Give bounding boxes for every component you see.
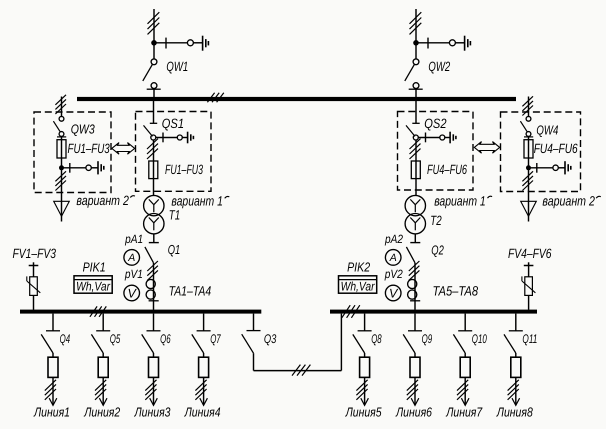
svg-text:PIK1: PIK1 [83,259,106,274]
footnote mark [596,196,601,198]
wire down [52,377,54,405]
svg-text:QW2: QW2 [428,59,450,74]
svg-text:TA5–TA8: TA5–TA8 [433,284,479,299]
wire down to transformer [415,140,417,196]
line continuation hatches [457,380,468,400]
transformer T1 secondary winding [144,214,164,234]
wire [414,353,416,357]
meter box header line [339,279,377,281]
wire to earthing switch [64,167,86,169]
feeder drop Q5 [102,314,104,331]
ammeter pA2 [385,250,401,266]
ground symbol [465,36,471,51]
svg-text:Q6: Q6 [160,332,171,346]
disconnector QW2 blade [405,65,415,81]
wire to bus [414,263,416,310]
wire [445,137,450,139]
arrester top tick [29,265,39,267]
line continuation hatches [147,261,158,280]
wire down [364,377,366,405]
wire down [61,168,63,201]
switch Q1 blade [145,247,154,263]
load switch QS2 blade [406,125,415,136]
line continuation hatches [522,171,533,190]
wire [91,167,98,169]
tie wire break marks [292,365,310,376]
line continuation hatches [147,139,158,159]
svg-text:Q4: Q4 [60,332,71,346]
junction node [526,165,531,170]
wire through arrow [61,201,63,221]
svg-text:QW4: QW4 [536,122,558,137]
QS2 hinge contact circle [413,135,418,140]
svg-text:A: A [127,252,135,264]
line continuation hatches [508,380,519,400]
fixed contact tick [57,136,66,138]
current transformer TA5–TA8 (upper) [408,279,417,288]
switch Q7 blade [192,334,204,353]
fixed contact tick [46,330,60,332]
wire down [203,377,205,405]
wire down [153,377,155,405]
wire to earthing switch [418,137,440,139]
wire to bus [153,263,155,310]
wire incoming line QW1 [153,9,155,59]
line continuation hatches [95,380,106,400]
transformer T2 primary winding [405,195,425,215]
feeder drop Q10 [464,314,466,331]
svg-text:Q7: Q7 [210,332,221,346]
tie wire horizontal [254,370,342,372]
switch Q6 blade [142,334,154,353]
wire through arrow [528,201,530,221]
fuse FU1-FU3 (variant 2) [57,140,66,158]
junction node at QW1 tap [151,40,157,46]
ground symbol [98,161,104,174]
fixed contact tick [147,88,161,90]
tie wire up to right bus [340,314,342,371]
wire down [515,377,517,405]
wire [528,266,530,277]
wire from bus to QS2 [415,101,417,123]
load switch QS1 blade [144,125,153,136]
contact tick [410,242,420,244]
wire [153,353,155,357]
dashed box variant 1 (left) [136,112,212,192]
line continuation hatches [409,261,420,280]
outgoing line arrow Линия2 [99,398,107,405]
meter box PIK2 [339,276,377,293]
earthing switch contact circle [553,165,558,170]
wire incoming line QW2 [415,9,417,59]
bottom busbar (left section) [20,310,261,314]
outgoing line arrow Линия8 [512,398,520,405]
wire [515,353,517,357]
wire [52,353,54,357]
fuse of feeder Q10 [460,357,470,377]
wire from bus to QS1 [153,101,155,123]
line continuation hatches [356,380,367,400]
svg-text:Q9: Q9 [422,332,433,346]
svg-text:TA1–TA4: TA1–TA4 [169,284,212,299]
line continuation hatches above QW1 [148,12,160,34]
fixed contact tick [524,136,533,138]
switch Q11 blade [504,334,516,353]
svg-text:QW1: QW1 [166,59,188,74]
wire below transformer [414,234,416,243]
wire to earthing switch [156,137,178,139]
svg-text:QW3: QW3 [71,122,96,137]
surge arrester FV4–FV6 body [525,277,533,296]
wire [558,167,565,169]
bus section break marks [207,93,223,102]
bottom busbar (right section) [330,310,537,314]
fixed contact tick [408,330,422,332]
wire [61,137,63,166]
wire to bus [33,295,35,309]
line continuation hatches above QW2 [410,12,422,34]
line continuation hatches [522,96,533,115]
disconnector QW2 bottom contact [413,83,419,89]
disconnector QW4 bottom contact [526,132,531,137]
switch Q10 blade [453,334,465,353]
wire [364,353,366,357]
current transformer TA5–TA8 (lower) [408,290,417,299]
contact tick [149,242,159,244]
fixed contact tick [96,330,110,332]
svg-text:PIK2: PIK2 [347,259,371,274]
fixed contact tick [458,330,472,332]
earthing switch contact circle [187,40,193,46]
svg-text:FV1–FV3: FV1–FV3 [13,246,57,261]
ammeter pA1 [124,250,140,266]
fixed contact tick [247,330,261,332]
bus break marks (left bus) [90,306,106,316]
surge arrester FV1–FV3 body [30,277,38,296]
svg-text:Линия4: Линия4 [184,405,221,420]
disconnector QW1 blade [143,65,153,81]
fixed contact tick [147,330,161,332]
svg-text:Линия1: Линия1 [33,405,70,420]
line continuation hatches [55,171,66,190]
svg-text:FU1–FU3: FU1–FU3 [68,141,111,156]
voltmeter pV1 [124,285,140,301]
line continuation hatches [407,380,418,400]
disconnector QW4 blade [520,121,527,132]
bus tie drop [253,314,255,331]
QS1 fixed contact tick [150,122,157,124]
transformer T1 primary winding [144,195,164,215]
svg-text:FU1–FU3: FU1–FU3 [165,162,203,177]
meter box PIK1 [74,276,112,293]
fuse of feeder Q8 [360,357,370,377]
arrester gap tick [521,276,523,281]
dashed box variant 2 (right) [501,112,581,192]
QS2 fixed contact tick [412,122,419,124]
wire to bus [153,89,155,98]
disconnector QW3 blade [53,121,60,132]
line continuation hatches [45,380,56,400]
wire down [102,377,104,405]
svg-text:Q1: Q1 [168,242,181,257]
fixed contact tick [358,330,372,332]
wire below transformer [153,234,155,243]
wire [464,353,466,357]
wire into box from top [61,97,63,117]
fixed contact tick [536,163,538,173]
feeder drop Q9 [414,314,416,331]
svg-text:QS2: QS2 [424,116,447,131]
svg-text:FU4–FU6: FU4–FU6 [534,141,578,156]
wire to earthing switch [531,167,553,169]
arrester top nub [33,262,35,265]
contact tick [410,300,420,302]
line continuation hatches [410,139,421,159]
fuse of feeder Q4 [48,357,58,377]
disconnector QW2 top contact [413,59,419,65]
current transformer TA1–TA4 (upper) [146,279,155,288]
footnote mark [488,196,493,198]
footnote mark [130,196,135,198]
fixed contact tick [427,38,429,49]
svg-text:pA2: pA2 [384,232,403,246]
wire into box from top [528,97,530,117]
line continuation hatches [195,380,206,400]
ground symbol [565,161,571,174]
arrester diagonal stroke [27,281,41,293]
wire [182,137,187,139]
svg-text:вариант 2: вариант 2 [542,193,595,208]
svg-text:FV4–FV6: FV4–FV6 [508,246,552,261]
svg-text:Линия2: Линия2 [83,405,120,420]
svg-text:pA1: pA1 [124,232,143,246]
svg-text:pV1: pV1 [124,267,143,281]
svg-text:Q11: Q11 [522,332,537,346]
wire down [464,377,466,405]
junction node at QW2 tap [413,40,419,46]
current transformer TA1–TA4 (lower) [146,290,155,299]
wire [193,42,202,44]
wire [33,266,35,277]
outgoing line arrow Линия1 [49,398,57,405]
arrester diagonal stroke [522,281,536,293]
outgoing line arrow Линия4 [200,398,208,405]
dashed box variant 2 (left) [34,112,111,193]
fuse of feeder Q5 [98,357,108,377]
svg-text:Q2: Q2 [431,243,444,258]
fuse FU4-FU6 (variant 2) [524,140,533,158]
outgoing line arrow Линия6 [411,398,419,405]
svg-text:QS1: QS1 [162,116,184,131]
switch Q9 blade [403,334,415,353]
svg-text:A: A [389,252,397,264]
outgoing line arrow Линия7 [461,398,469,405]
arrester top tick [524,265,534,267]
disconnector QW3 bottom contact [59,132,64,137]
arrester top nub [528,262,530,265]
earthing switch contact circle [177,135,182,140]
ground symbol [450,132,456,144]
feeder drop Q11 [515,314,517,331]
wire down [528,168,530,201]
ground symbol [203,36,209,51]
transformer T2 secondary winding [405,214,425,234]
dashed box variant 1 (right) [398,112,474,191]
wire to earthing switch [154,42,187,44]
outgoing arrow (to transformer) variant 2 left [54,201,70,216]
fuse of feeder Q7 [199,357,209,377]
svg-text:Линия6: Линия6 [395,405,432,420]
svg-text:Q10: Q10 [472,332,487,346]
wire [528,137,530,166]
fuse of feeder Q9 [410,357,420,377]
svg-text:Q3: Q3 [264,332,277,346]
double arrow between variants (left) [112,143,135,155]
footnote mark [225,196,230,198]
wire down [253,353,255,370]
feeder drop Q6 [153,314,155,331]
fuse of feeder Q11 [511,357,521,377]
svg-text:Линия7: Линия7 [445,405,482,420]
disconnector QW3 top contact [59,116,64,121]
fuse of feeder Q6 [149,357,159,377]
fuse FU4-FU6 (variant 1) [411,161,420,179]
disconnector QW1 bottom contact [151,83,157,89]
svg-text:FU4–FU6: FU4–FU6 [427,162,467,177]
fixed contact tick [69,163,71,173]
svg-text:Q5: Q5 [110,332,121,346]
feeder drop Q4 [52,314,54,331]
svg-text:вариант 2: вариант 2 [76,193,129,208]
svg-text:вариант 1: вариант 1 [434,194,486,209]
svg-text:T1: T1 [169,208,180,223]
QS1 hinge contact circle [151,135,156,140]
contact tick [149,300,159,302]
svg-text:Линия3: Линия3 [134,405,171,420]
tie switch Q3 blade [242,334,254,353]
fixed contact tick [197,330,211,332]
earthing switch contact circle [440,135,445,140]
wire to earthing switch [416,42,449,44]
outgoing line arrow Линия5 [361,398,369,405]
fixed contact tick [162,133,164,143]
arrester gap tick [26,276,28,281]
outgoing line arrow Линия3 [150,398,158,405]
switch Q4 blade [41,334,53,353]
meter box header line [74,279,112,281]
switch Q8 blade [353,334,365,353]
wire down [414,377,416,405]
svg-text:T2: T2 [430,213,442,228]
line continuation hatches [55,95,66,114]
disconnector QW1 top contact [151,59,157,65]
svg-text:pV2: pV2 [384,267,403,281]
svg-text:Линия5: Линия5 [345,405,382,420]
earthing switch contact circle [86,165,91,170]
feeder drop Q7 [203,314,205,331]
svg-text:Wh,Var: Wh,Var [341,279,376,293]
top busbar [77,97,516,101]
double arrow between variants (right) [474,142,499,154]
fixed contact tick [509,330,523,332]
switch Q5 blade [91,334,103,353]
svg-text:Wh,Var: Wh,Var [76,279,111,293]
earthing switch contact circle [449,40,455,46]
svg-text:Q8: Q8 [371,332,382,346]
ground symbol [188,132,194,144]
fuse FU1-FU3 (variant 1) [149,161,158,179]
bus break marks (right bus) [342,305,360,318]
wire to bus [528,295,530,309]
fixed contact tick [165,38,167,49]
wire down to transformer [153,140,155,196]
wire [102,353,104,357]
disconnector QW4 top contact [526,116,531,121]
fixed contact tick [425,133,427,143]
fixed contact tick [409,88,423,90]
wire [455,42,464,44]
line continuation hatches [145,380,156,400]
wire [203,353,205,357]
voltmeter pV2 [385,285,401,301]
svg-text:Линия8: Линия8 [496,405,533,420]
wire to bus [415,89,417,98]
junction node [59,165,64,170]
feeder drop Q8 [364,314,366,331]
outgoing arrow (to transformer) variant 2 right [521,201,537,216]
switch Q2 blade [406,247,415,263]
svg-text:вариант 1: вариант 1 [171,194,223,209]
